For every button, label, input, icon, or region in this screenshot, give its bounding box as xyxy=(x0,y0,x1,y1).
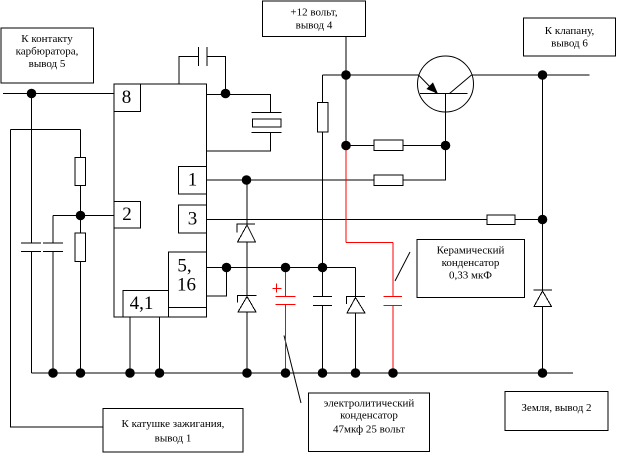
label box: ground xyxy=(505,392,608,431)
wire: R6 to right vertical xyxy=(515,219,543,221)
pin box 5,16 xyxy=(169,252,207,308)
leader line to electrolytic capacitor xyxy=(284,336,301,404)
wire: down to resistor R1 xyxy=(80,130,82,158)
ground bus junction 6 xyxy=(281,368,291,378)
label box: carburetor contact xyxy=(1,28,94,83)
wire: vertical from node A down to capacitor C1 xyxy=(31,94,33,244)
svg-text:4,1: 4,1 xyxy=(130,293,154,314)
diode D4 cathode bar xyxy=(534,289,553,291)
svg-text:47мкф 25 вольт: 47мкф 25 вольт xyxy=(333,424,405,436)
wire: C2 bottom to ground bus xyxy=(52,252,54,374)
svg-text:конденсатор: конденсатор xyxy=(340,410,398,422)
red wire: C6 to ground bus xyxy=(285,305,287,374)
ground bus junction 5 xyxy=(242,368,252,378)
junction base-left node xyxy=(341,141,351,151)
svg-text:вывод 4: вывод 4 xyxy=(296,20,333,32)
svg-text:вывод 1: вывод 1 xyxy=(155,433,192,445)
wire: horizontal branch y=129.5 xyxy=(11,129,81,131)
svg-text:вывод 5: вывод 5 xyxy=(29,58,66,70)
red wire: down to ceramic capacitor C5 xyxy=(392,243,394,297)
svg-text:+12 вольт,: +12 вольт, xyxy=(290,7,337,19)
diode D3 cathode bar with tick xyxy=(347,297,366,305)
diode D3 triangle xyxy=(347,298,365,314)
crystal X1 plates xyxy=(252,112,282,114)
ground bus junction 9 xyxy=(388,368,398,378)
label box: ceramic capacitor xyxy=(417,240,525,298)
pin box 1 xyxy=(179,167,207,195)
wire: IC pin 4,1 lead left xyxy=(129,317,131,373)
diode D2 cathode bar with tick xyxy=(238,296,257,303)
electrolytic capacitor C6 plates (red) xyxy=(276,296,296,298)
ground bus junction 8 xyxy=(351,368,361,378)
wire: corner down to diode D3 xyxy=(355,268,357,297)
svg-text:К контакту: К контакту xyxy=(21,33,73,45)
wire: emitter rail y=75 xyxy=(323,74,419,76)
wire: C1 bottom to ground bus xyxy=(31,252,33,374)
label box: ignition coil xyxy=(103,409,243,453)
svg-text:2: 2 xyxy=(122,204,132,225)
junction node A xyxy=(27,89,37,99)
pin box 4,1 xyxy=(123,291,169,318)
junction electrolytic node xyxy=(281,263,291,273)
junction pin3 right node xyxy=(538,215,548,225)
junction 5,16 stub node xyxy=(222,263,232,273)
junction collector rail node xyxy=(538,70,548,80)
wire: R4 to base node right xyxy=(403,145,446,147)
diode D1 triangle xyxy=(238,225,256,242)
svg-text:16: 16 xyxy=(177,275,196,296)
junction node C xyxy=(221,89,231,99)
label box: valve xyxy=(524,18,616,56)
junction node D xyxy=(318,263,328,273)
wire: top-left horizontal to pin 8 xyxy=(3,93,114,95)
transistor Q1 emitter arrow xyxy=(427,83,437,93)
capacitor C3 plates (top of IC) xyxy=(198,47,200,66)
wire: base node to resistor R4 xyxy=(346,145,374,147)
wire: corner down to resistor R5 xyxy=(322,75,324,103)
wire: R2 bottom to ground bus xyxy=(80,262,82,374)
wire: C3 left lead to IC top xyxy=(179,57,199,85)
diode D2 triangle xyxy=(238,297,256,313)
wire: D2 to ground bus xyxy=(246,312,248,373)
wire: node D to capacitor C4 xyxy=(322,268,324,297)
svg-text:вывод 6: вывод 6 xyxy=(551,38,588,50)
wire: D4 to ground bus xyxy=(542,307,544,374)
wire: right vertical from valve node xyxy=(542,75,544,290)
svg-text:электролитический: электролитический xyxy=(324,398,415,410)
ground bus junction 3 xyxy=(125,368,135,378)
wire: pin 5,16 horizontal xyxy=(207,267,356,269)
wire: +12V lead down xyxy=(345,37,347,146)
ceramic capacitor C5 plates (red) xyxy=(384,296,403,298)
red wire: C5 to ground bus xyxy=(392,306,394,374)
crystal X1 body xyxy=(253,119,282,127)
wire: C3 right lead down to node C xyxy=(207,57,226,94)
svg-text:Земля, вывод 2: Земля, вывод 2 xyxy=(521,402,591,414)
pin box 2 xyxy=(114,202,141,229)
wire: pin 1 horizontal xyxy=(207,179,375,181)
wire: D1 to D2 xyxy=(246,242,248,296)
resistor R4 xyxy=(374,140,403,151)
wire: R3 to corner up to base node xyxy=(403,146,446,181)
wire: transistor base lead xyxy=(445,94,447,146)
ground bus junction 7 xyxy=(318,368,328,378)
wire: R5 down to node D xyxy=(322,132,324,268)
junction pin1 node xyxy=(242,175,252,185)
svg-text:Керамический: Керамический xyxy=(437,245,505,257)
transistor Q1 emitter diagonal xyxy=(419,75,437,94)
svg-text:К клапану,: К клапану, xyxy=(545,25,595,37)
wire: crystal bottom back to IC xyxy=(207,133,271,152)
red wire: node to electrolytic C6 xyxy=(285,268,287,297)
capacitor C4 plates xyxy=(313,296,332,298)
resistor R1 xyxy=(75,158,86,186)
leader line to ceramic capacitor xyxy=(395,252,410,281)
resistor R2 xyxy=(75,233,86,262)
electrolytic capacitor C6 plus sign xyxy=(273,288,282,290)
resistor R3 xyxy=(374,175,403,186)
resistor R5 xyxy=(318,103,329,133)
wire: IC pin 4,1 lead right xyxy=(159,317,161,373)
ground bus xyxy=(32,372,574,374)
diode D1 cathode bar with tick xyxy=(237,224,255,233)
ground bus junction 4 xyxy=(155,368,165,378)
wire: D3 to ground bus xyxy=(355,313,357,373)
red wire: base node down xyxy=(345,146,347,243)
svg-text:карбюратора,: карбюратора, xyxy=(16,46,79,58)
label box: electrolytic capacitor xyxy=(309,393,430,452)
wire: collector rail to valve xyxy=(472,74,590,76)
diode D4 triangle xyxy=(534,291,552,307)
svg-text:1: 1 xyxy=(188,170,198,191)
wire: R1 to node B xyxy=(80,186,82,234)
label box: +12V xyxy=(263,1,366,37)
wire: C4 to ground bus xyxy=(322,306,324,374)
ground bus junction 10 xyxy=(538,368,548,378)
svg-text:конденсатор: конденсатор xyxy=(442,257,500,269)
svg-text:8: 8 xyxy=(122,87,132,108)
ground bus junction 2 xyxy=(76,368,86,378)
pin box 8 xyxy=(114,84,141,112)
wire: corner down to capacitor C2 xyxy=(52,216,54,244)
svg-text:К катушке зажигания,: К катушке зажигания, xyxy=(122,418,225,430)
capacitor C2 plates xyxy=(43,242,63,244)
red wire: horizontal jog xyxy=(346,242,393,244)
svg-text:3: 3 xyxy=(188,209,198,230)
svg-text:5,: 5, xyxy=(177,256,191,277)
svg-text:0,33 мкФ: 0,33 мкФ xyxy=(449,270,492,282)
wire: pin 3 horizontal xyxy=(207,219,488,221)
ground bus junction 1 xyxy=(48,368,58,378)
junction node B xyxy=(76,211,86,221)
junction +12V node xyxy=(341,70,351,80)
wire: node B horizontal to pin 2 xyxy=(53,215,114,217)
wire: pin 5,16 lower stub xyxy=(207,268,227,297)
op-amp U1 body xyxy=(114,84,207,317)
resistor R6 xyxy=(487,215,515,225)
transistor Q1 base bar xyxy=(420,93,468,95)
transistor Q1 collector diagonal xyxy=(450,75,472,94)
pin box 3 xyxy=(179,205,207,233)
transistor Q1 circle xyxy=(418,56,474,112)
wire: pin1 node down to diode D1 xyxy=(246,180,248,224)
junction base-right node xyxy=(441,141,451,151)
wire: far-left vertical to ignition coil xyxy=(11,130,104,428)
capacitor C1 plates xyxy=(21,242,41,244)
wire: IC right edge to crystal top xyxy=(207,95,271,113)
